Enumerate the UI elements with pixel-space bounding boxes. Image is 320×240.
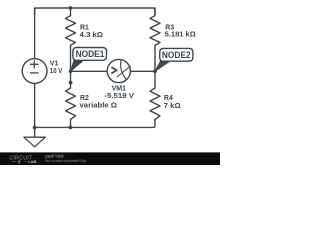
footer CircuitLab logo (9, 155, 36, 164)
wire R2 bottom lead (70, 119, 72, 127)
svg-text:R2: R2 (80, 95, 89, 102)
svg-text:7 kΩ: 7 kΩ (164, 103, 181, 110)
VM1 polarity chevron (111, 67, 116, 73)
wire top rail (35, 8, 155, 14)
resistor R4 (150, 88, 160, 119)
svg-text:http://circuitlab.com/c/abafe9: http://circuitlab.com/c/abafe9315gs (45, 158, 86, 163)
resistor R1 (66, 16, 76, 46)
wire VM1 left lead (71, 70, 108, 72)
svg-text:variable Ω: variable Ω (80, 103, 118, 110)
wire R1 bottom lead to NODE1 (70, 45, 72, 71)
wire R3 top lead (154, 8, 156, 16)
VM1 needle (117, 66, 131, 77)
junction dot bottom rail / ground (33, 126, 37, 130)
svg-text:4.3 kΩ: 4.3 kΩ (80, 32, 104, 39)
voltage source V1 (22, 59, 47, 84)
svg-text:LAB: LAB (28, 159, 36, 164)
node NODE2 flag tail (155, 61, 170, 72)
junction dot NODE2 (153, 69, 157, 73)
junction dot top rail / R1 (69, 6, 73, 10)
svg-text:5.181 kΩ: 5.181 kΩ (165, 31, 197, 38)
wire ground stub (34, 127, 36, 137)
svg-text:10 V: 10 V (50, 68, 63, 75)
wire NODE1 to R2 (70, 71, 72, 88)
VM1 meter scale arc (121, 60, 126, 80)
svg-text:VM1: VM1 (112, 86, 127, 93)
node NODE1 flag tail (71, 60, 84, 71)
V1 minus sign (31, 72, 39, 74)
node NODE2 flag (160, 48, 193, 61)
V1 plus sign (31, 61, 39, 69)
wire bottom rail (35, 121, 155, 128)
svg-text:NODE2: NODE2 (162, 50, 191, 60)
wire V1 top lead (34, 8, 36, 59)
svg-text:V1: V1 (50, 60, 59, 67)
wire VM1 right lead (130, 70, 155, 72)
wire NODE2 to R4 (154, 71, 156, 88)
junction dot bottom rail / R2 (69, 126, 73, 130)
junction dot NODE1 (69, 69, 73, 73)
ground (24, 137, 46, 147)
svg-text:R4: R4 (164, 95, 173, 102)
voltmeter VM1 (107, 59, 130, 82)
wire V1 bottom lead (34, 83, 36, 127)
junction dot R2 top pin (69, 81, 73, 85)
resistor R2 (66, 88, 76, 119)
node NODE1 flag (73, 48, 107, 61)
wire R3 bottom lead to NODE2 (154, 45, 156, 71)
svg-text:NODE1: NODE1 (76, 49, 105, 59)
resistor R3 (150, 16, 160, 46)
svg-text:R3: R3 (165, 24, 174, 31)
footer bar (0, 152, 220, 165)
wire R4 bottom lead (154, 119, 156, 120)
svg-text:-5.519 V: -5.519 V (104, 93, 134, 100)
wire R1 top lead (70, 8, 72, 16)
svg-text:R1: R1 (80, 25, 89, 32)
